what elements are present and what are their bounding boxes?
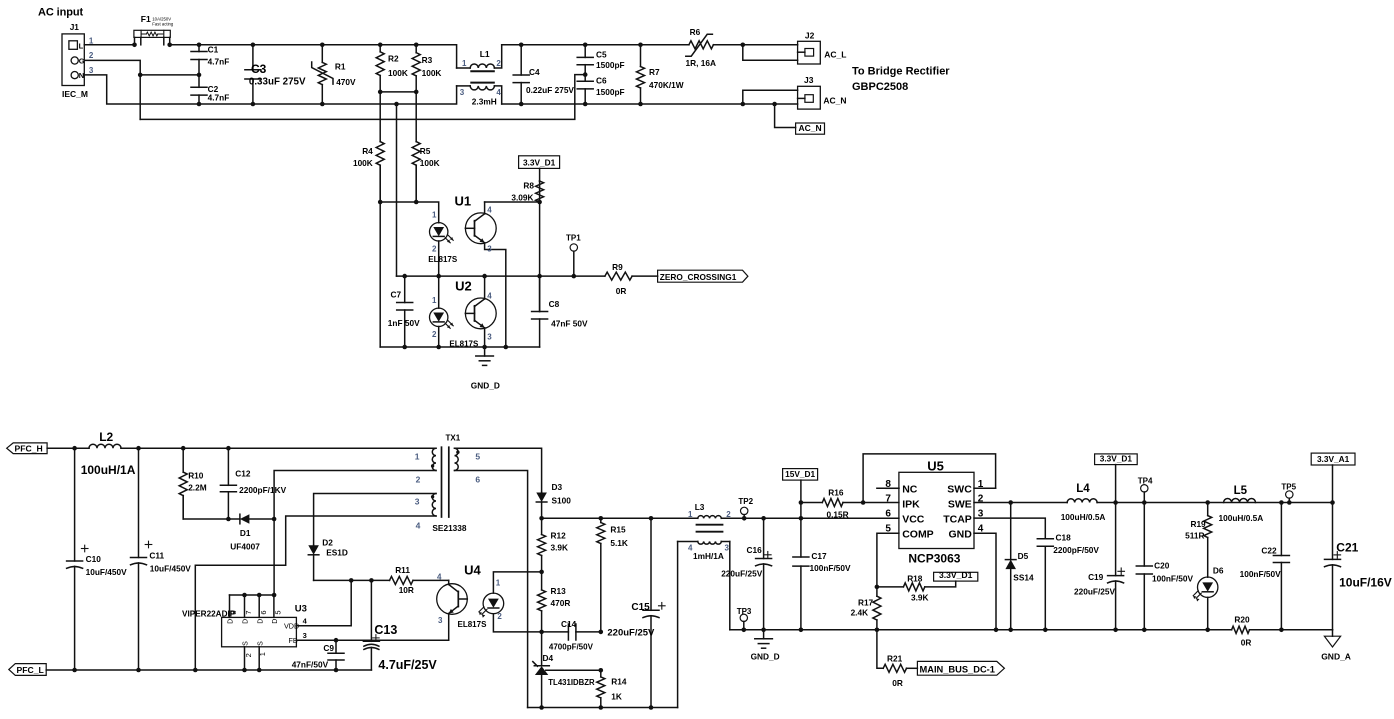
junction [414, 200, 419, 205]
svg-text:N: N [79, 71, 84, 80]
net label [519, 156, 560, 169]
wire drain bus [230, 594, 274, 596]
svg-text:C10: C10 [86, 554, 102, 564]
svg-text:511R: 511R [1185, 531, 1204, 541]
wire TX1 pin2 to drain [274, 471, 436, 596]
svg-text:470R: 470R [551, 598, 571, 608]
svg-text:C16: C16 [747, 545, 763, 555]
svg-text:470K/1W: 470K/1W [649, 80, 684, 90]
wire VDD pin [296, 580, 351, 625]
svg-text:GND_D: GND_D [471, 381, 500, 391]
svg-text:IEC_M: IEC_M [62, 89, 88, 99]
svg-text:C14: C14 [561, 619, 577, 629]
svg-text:1mH/1A: 1mH/1A [693, 551, 724, 561]
svg-text:R3: R3 [422, 55, 433, 65]
svg-text:C4: C4 [529, 67, 540, 77]
svg-text:1500pF: 1500pF [596, 87, 625, 97]
svg-text:1: 1 [89, 36, 94, 45]
junction [583, 102, 588, 107]
wire FB pin [296, 639, 448, 641]
junction [482, 274, 487, 279]
junction [320, 43, 325, 48]
junction [599, 705, 604, 710]
junction [539, 570, 544, 575]
junction [572, 274, 577, 279]
test point [737, 607, 752, 630]
svg-text:1: 1 [415, 452, 420, 462]
svg-text:3: 3 [487, 245, 492, 254]
svg-text:1: 1 [688, 510, 693, 519]
capacitor [577, 45, 593, 75]
svg-text:D4: D4 [543, 653, 554, 663]
svg-text:To Bridge Rectifier: To Bridge Rectifier [852, 66, 950, 78]
svg-text:3.3V_D1: 3.3V_D1 [1100, 454, 1133, 464]
wire TX1 pin5 to D3 [455, 448, 542, 492]
svg-text:SWC: SWC [947, 483, 972, 495]
svg-text:S: S [257, 641, 264, 646]
test point [1138, 476, 1153, 502]
svg-text:2: 2 [496, 59, 501, 68]
test point [1281, 482, 1296, 502]
svg-text:C1: C1 [208, 45, 219, 55]
junction [638, 102, 643, 107]
svg-text:PFC_L: PFC_L [17, 665, 44, 675]
test point [566, 233, 581, 276]
resistor [412, 92, 420, 202]
optocoupler U2 EL817S [430, 276, 497, 348]
junction [1205, 500, 1210, 505]
U3 VIPER22ADIP [182, 595, 308, 670]
junction [369, 578, 374, 583]
svg-text:U3: U3 [295, 604, 307, 615]
svg-text:R10: R10 [188, 471, 204, 481]
svg-text:NCP3063: NCP3063 [908, 552, 960, 566]
wire N tap to zero crossing node [396, 104, 398, 276]
svg-text:L1: L1 [480, 49, 490, 59]
junction [378, 43, 383, 48]
svg-text:220uF/25V: 220uF/25V [1074, 587, 1116, 597]
svg-text:J3: J3 [804, 75, 814, 85]
junction [1008, 628, 1013, 633]
svg-text:D3: D3 [552, 482, 563, 492]
svg-text:4.7nF: 4.7nF [208, 93, 230, 103]
svg-text:3.3V_D1: 3.3V_D1 [939, 570, 973, 580]
svg-text:100uH/1A: 100uH/1A [81, 463, 136, 477]
junction [1142, 628, 1147, 633]
svg-text:4.7uF/25V: 4.7uF/25V [378, 658, 437, 672]
diode D1 UF4007 [183, 496, 274, 552]
junction [519, 102, 524, 107]
svg-text:TP2: TP2 [738, 497, 753, 506]
wire GND_D rail [730, 629, 1232, 631]
junction [72, 668, 77, 673]
svg-text:1: 1 [978, 479, 984, 490]
svg-text:C8: C8 [549, 299, 560, 309]
svg-text:4: 4 [487, 205, 492, 214]
svg-text:0.22uF 275V: 0.22uF 275V [526, 85, 574, 95]
junction [583, 43, 588, 48]
shunt regulator D4 TL431IDBZR [533, 632, 601, 708]
svg-text:4: 4 [487, 292, 492, 301]
svg-text:10uF/450V: 10uF/450V [150, 564, 192, 574]
wire SWC loop [863, 454, 996, 503]
svg-text:SWE: SWE [948, 498, 972, 510]
resistor [179, 448, 187, 519]
capacitor [245, 45, 261, 104]
svg-text:C13: C13 [374, 623, 397, 637]
capacitor [1037, 539, 1053, 630]
wire N rail after choke [502, 103, 743, 105]
svg-text:4.7nF: 4.7nF [208, 57, 230, 67]
junction [272, 517, 277, 522]
resistor R21 [877, 630, 918, 688]
svg-text:7: 7 [885, 494, 891, 505]
svg-text:R1: R1 [335, 61, 346, 71]
svg-text:D6: D6 [1213, 566, 1224, 576]
wire GND pin riser [974, 533, 996, 630]
wire J3 upper stub [743, 90, 798, 104]
svg-text:R20: R20 [1234, 615, 1250, 625]
svg-text:D1: D1 [240, 528, 251, 538]
svg-text:C6: C6 [596, 76, 607, 86]
diode D3 S100 [536, 482, 571, 518]
svg-text:VIPER22ADIP: VIPER22ADIP [182, 609, 236, 618]
wire N to J3 [743, 103, 798, 105]
junction [1279, 628, 1284, 633]
svg-text:2: 2 [89, 51, 94, 60]
svg-text:C20: C20 [1154, 560, 1170, 570]
svg-text:3: 3 [303, 631, 307, 640]
junction [638, 43, 643, 48]
net label [796, 123, 825, 134]
junction [272, 593, 277, 598]
svg-text:L5: L5 [1234, 485, 1248, 497]
resistor [538, 518, 568, 572]
svg-text:J1: J1 [70, 22, 80, 32]
svg-text:1: 1 [432, 211, 437, 220]
wire L3 pin3 riser [729, 542, 731, 630]
resistor [637, 45, 684, 104]
svg-text:C7: C7 [391, 290, 402, 300]
wire secondary return rail [528, 707, 678, 709]
svg-text:2: 2 [497, 612, 502, 621]
junction [378, 90, 383, 95]
junction [226, 517, 231, 522]
svg-text:100nF/50V: 100nF/50V [1240, 569, 1282, 579]
wire L rail after choke [502, 44, 689, 46]
svg-text:7: 7 [244, 610, 253, 614]
svg-text:100nF/50V: 100nF/50V [810, 563, 852, 573]
resistor [1204, 503, 1212, 578]
net label [934, 570, 978, 581]
svg-text:GND: GND [948, 529, 972, 541]
wire TX1 pin3 to D2 [314, 494, 436, 546]
capacitor [1136, 503, 1152, 630]
wire 3.3V rail [1097, 502, 1332, 504]
svg-text:220uF/25V: 220uF/25V [721, 568, 763, 578]
junction [599, 668, 604, 673]
svg-text:100uH/0.5A: 100uH/0.5A [1219, 513, 1264, 523]
svg-text:C12: C12 [235, 469, 251, 479]
wire COMP [877, 533, 899, 587]
wire 15V label riser [800, 480, 802, 518]
wire AC N tap [775, 104, 796, 128]
junction [539, 705, 544, 710]
junction [136, 668, 141, 673]
wire earth rail to C5 C6 mid [140, 75, 585, 120]
svg-text:0R: 0R [616, 286, 627, 296]
svg-text:F1: F1 [141, 14, 151, 24]
svg-text:100K: 100K [353, 158, 373, 168]
optocoupler U1 EL817S [428, 194, 506, 348]
svg-text:2200pF/1KV: 2200pF/1KV [239, 485, 287, 495]
svg-text:C19: C19 [1088, 572, 1104, 582]
svg-text:EL817S: EL817S [428, 255, 458, 264]
svg-text:GND_D: GND_D [751, 652, 780, 662]
svg-text:Fast acting: Fast acting [152, 22, 174, 27]
wire J2 lower stub [743, 45, 798, 61]
svg-text:COMP: COMP [902, 529, 934, 541]
svg-text:3.9K: 3.9K [551, 543, 569, 553]
svg-text:100K: 100K [388, 68, 408, 78]
diode D2 ES1D [308, 537, 348, 580]
resistor [873, 587, 881, 630]
svg-text:TCAP: TCAP [943, 513, 972, 525]
svg-text:R9: R9 [612, 262, 623, 272]
svg-text:R4: R4 [362, 146, 373, 156]
capacitor [1273, 503, 1289, 630]
svg-text:2200pF/50V: 2200pF/50V [1053, 545, 1099, 555]
capacitor [1325, 503, 1341, 630]
svg-text:2: 2 [432, 245, 437, 254]
svg-text:10uF/16V: 10uF/16V [1339, 576, 1392, 590]
wire AC N rail [84, 75, 456, 104]
junction [1279, 500, 1284, 505]
svg-text:100nF/50V: 100nF/50V [1152, 574, 1194, 584]
wire earth to C1 C2 mid [140, 74, 199, 76]
inductor [1067, 499, 1097, 503]
svg-text:C21: C21 [1336, 541, 1358, 555]
wire J1 pin2 earth [84, 60, 140, 119]
svg-text:5: 5 [475, 452, 480, 462]
svg-text:4: 4 [688, 544, 693, 553]
resistor [597, 670, 627, 707]
net flag ZERO_CROSSING1 [658, 270, 748, 282]
svg-text:U2: U2 [455, 279, 472, 294]
test point [738, 497, 753, 518]
junction [138, 73, 143, 78]
svg-text:6: 6 [475, 475, 480, 485]
inductor [1224, 499, 1256, 503]
text To Bridge Rectifier [852, 66, 950, 94]
junction [414, 43, 419, 48]
wire R6 to J2 [713, 44, 797, 46]
junction [875, 628, 880, 633]
svg-text:5.1K: 5.1K [610, 538, 628, 548]
svg-text:D5: D5 [1018, 551, 1029, 561]
svg-text:AC input: AC input [38, 7, 83, 19]
junction [519, 43, 524, 48]
junction [649, 705, 654, 710]
svg-text:R12: R12 [551, 531, 567, 541]
svg-text:2.3mH: 2.3mH [472, 96, 497, 106]
wire PFC H rail left [47, 447, 89, 449]
capacitor [532, 276, 548, 347]
junction [414, 90, 419, 95]
junction [1330, 500, 1335, 505]
svg-text:D: D [228, 619, 235, 624]
junction [994, 628, 999, 633]
junction [742, 516, 747, 521]
resistor R20 [1232, 615, 1252, 648]
resistor [536, 181, 544, 202]
wire R5 bottom [415, 165, 417, 202]
wire L3 pin4 riser [677, 542, 679, 708]
junction [320, 102, 325, 107]
svg-text:3: 3 [438, 616, 443, 625]
net label [1095, 454, 1138, 465]
net label [783, 469, 818, 481]
inductor [89, 444, 121, 448]
svg-text:10R: 10R [399, 585, 414, 595]
svg-text:R15: R15 [610, 524, 626, 534]
svg-text:C22: C22 [1261, 546, 1277, 556]
wire GND_A rail [1250, 629, 1333, 631]
junction [539, 630, 544, 635]
junction [799, 516, 804, 521]
svg-text:47nF/50V: 47nF/50V [292, 660, 329, 670]
svg-text:C15: C15 [631, 602, 650, 613]
wire R2 R3 link [380, 91, 416, 93]
junction [504, 345, 509, 350]
junction [197, 73, 202, 78]
junction [1142, 500, 1147, 505]
fuse F1 [134, 14, 174, 45]
junction [875, 585, 880, 590]
svg-text:VCC: VCC [902, 513, 925, 525]
svg-text:100K: 100K [422, 68, 442, 78]
junction [799, 628, 804, 633]
junction [436, 274, 441, 279]
svg-text:R14: R14 [611, 676, 627, 686]
junction [402, 345, 407, 350]
wire secondary output rail [542, 517, 698, 519]
junction [482, 345, 487, 350]
svg-text:GND_A: GND_A [1321, 651, 1351, 661]
svg-text:5: 5 [274, 610, 283, 614]
junction [242, 668, 247, 673]
transformer TX1 SE21338 [415, 433, 481, 533]
svg-text:10uF/450V: 10uF/450V [86, 567, 128, 577]
junction [649, 516, 654, 521]
svg-text:C17: C17 [811, 551, 827, 561]
svg-text:EL817S: EL817S [458, 620, 488, 629]
svg-text:4: 4 [496, 88, 501, 97]
junction [761, 516, 766, 521]
svg-text:L3: L3 [695, 502, 705, 512]
svg-text:D: D [257, 619, 264, 624]
capacitor [191, 75, 207, 104]
svg-text:U4: U4 [464, 563, 481, 578]
svg-text:IPK: IPK [902, 498, 920, 510]
svg-text:R18: R18 [907, 573, 923, 583]
svg-text:1nF 50V: 1nF 50V [388, 318, 420, 328]
ground GND_D [751, 630, 780, 662]
svg-text:U1: U1 [455, 194, 472, 209]
svg-text:4: 4 [437, 573, 442, 582]
svg-text:R5: R5 [420, 146, 431, 156]
optocoupler U4 EL817S [437, 563, 542, 641]
junction [394, 102, 399, 107]
svg-text:C11: C11 [149, 551, 164, 561]
ground GND_D [471, 347, 500, 391]
svg-text:1: 1 [496, 579, 501, 588]
svg-text:R21: R21 [887, 654, 903, 664]
svg-text:SE21338: SE21338 [432, 523, 467, 533]
junction [136, 446, 141, 451]
net flag MAIN_BUS_DC-1 [917, 661, 1004, 675]
junction [537, 200, 542, 205]
wire [539, 168, 541, 181]
connector J1 IEC_M [62, 22, 94, 99]
svg-text:1: 1 [258, 652, 267, 656]
svg-text:3.09K: 3.09K [511, 192, 533, 202]
diode D5 SS14 [1005, 503, 1034, 630]
svg-text:10A/250V: 10A/250V [152, 16, 171, 21]
svg-text:6: 6 [259, 610, 268, 614]
resistor R16 [801, 488, 899, 520]
svg-text:15V_D1: 15V_D1 [785, 469, 815, 479]
wire R8 to C8 [539, 202, 541, 312]
svg-text:ES1D: ES1D [326, 548, 348, 558]
junction [537, 274, 542, 279]
wire zero crossing node [397, 275, 605, 277]
wire TX1 pin4 aux return [195, 516, 436, 670]
svg-text:AC_N: AC_N [798, 123, 821, 133]
svg-text:C5: C5 [596, 50, 607, 60]
wire R9 to flag [632, 275, 658, 277]
svg-text:C18: C18 [1056, 533, 1072, 543]
net label [1311, 453, 1355, 465]
resistor R9 [605, 262, 632, 296]
capacitor [1108, 503, 1125, 630]
svg-text:PFC_H: PFC_H [15, 444, 43, 454]
resistor R18 [877, 573, 956, 602]
svg-text:3: 3 [415, 497, 420, 507]
resistor [412, 45, 441, 92]
svg-text:UF4007: UF4007 [230, 542, 260, 552]
junction [402, 274, 407, 279]
resistor R11 [314, 565, 449, 595]
svg-text:2: 2 [416, 475, 421, 485]
svg-text:R17: R17 [858, 597, 874, 607]
junction [242, 593, 247, 598]
svg-text:0R: 0R [1241, 637, 1252, 647]
junction [72, 446, 77, 451]
wire 3.3V label riser [1115, 465, 1117, 503]
junction [181, 446, 186, 451]
svg-text:R8: R8 [523, 181, 534, 191]
wire 3.3V_A1 riser [1332, 465, 1334, 503]
wire PFC H rail to TX1 [121, 447, 436, 449]
connector J2 [798, 31, 847, 65]
capacitor [131, 448, 152, 670]
svg-text:4: 4 [416, 521, 421, 531]
wire divider to U1 LED [380, 202, 439, 223]
junction [193, 668, 198, 673]
svg-text:0.15R: 0.15R [827, 510, 849, 520]
svg-text:470V: 470V [336, 77, 356, 87]
